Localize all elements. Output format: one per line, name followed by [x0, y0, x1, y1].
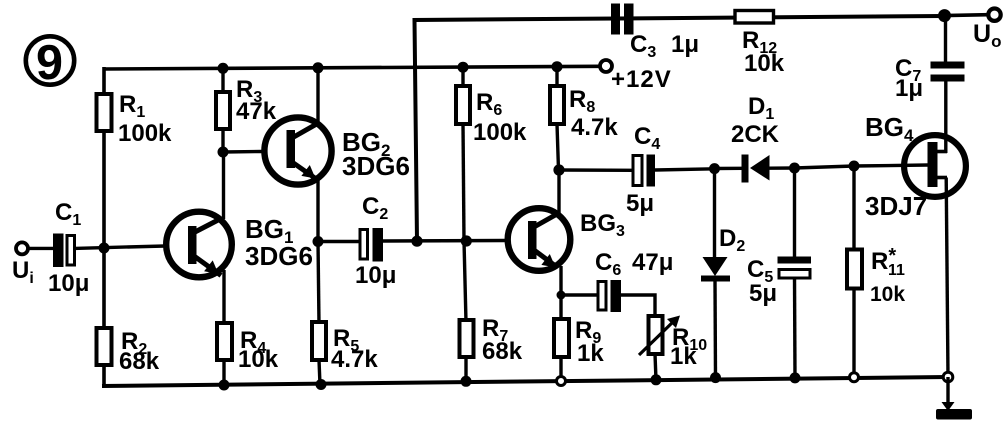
- svg-text:3DG6: 3DG6: [245, 241, 313, 271]
- wire bus to R3: [221, 68, 224, 94]
- node R10 ground junction: [651, 374, 662, 385]
- wire R6 to base line: [463, 124, 464, 241]
- capacitor C2 10u: [355, 193, 396, 289]
- capacitor C1 10u: [48, 199, 89, 297]
- wire node to BG4 gate: [854, 165, 928, 166]
- wire bus to R6: [461, 67, 464, 88]
- wire C2 to BG3 base: [383, 239, 505, 243]
- wire node to C2: [318, 240, 360, 243]
- transistor BG4 3DJ7 (FET): [865, 112, 966, 221]
- node R3 top on supply bus: [218, 63, 229, 74]
- svg-text:1k: 1k: [670, 343, 697, 370]
- wire R4 to ground bus: [222, 360, 225, 386]
- node C5 ground junction: [790, 372, 801, 383]
- wire C5 node to R11 node: [795, 166, 855, 168]
- wire C5 column: [793, 168, 796, 257]
- wire top feedback bus: [415, 16, 944, 241]
- wire R1 to R2: [102, 131, 106, 329]
- wire node to C7: [944, 16, 947, 63]
- output terminal Uo: [973, 9, 1001, 52]
- ground symbol: [936, 377, 972, 420]
- node R6 top on supply bus: [458, 62, 469, 73]
- wire R5 column: [318, 242, 319, 325]
- svg-text:47k: 47k: [236, 98, 277, 125]
- +12V supply terminal: [600, 60, 672, 93]
- wire BG1 emitter to R4: [222, 270, 225, 325]
- wire R3 to node A: [221, 129, 224, 152]
- wire R8 to collector node: [557, 124, 559, 170]
- svg-text:5μ: 5μ: [626, 190, 654, 217]
- wire node to C6: [561, 293, 598, 296]
- svg-text:C647μ: C647μ: [595, 249, 673, 279]
- capacitor C3 1u: [611, 4, 699, 62]
- wire BG2 emitter down to C2 node: [316, 180, 319, 242]
- node C1/R1/R2 junction: [99, 243, 110, 254]
- wire R1 column: [102, 67, 106, 96]
- wire +12V supply bus: [104, 66, 600, 69]
- svg-text:10k: 10k: [744, 50, 785, 77]
- node R8 top on supply bus: [552, 61, 563, 72]
- resistor R2 68k: [97, 328, 160, 375]
- svg-text:+12V: +12V: [611, 66, 672, 93]
- node R7 ground junction: [461, 376, 472, 387]
- node R6/R7 junction: [461, 235, 472, 246]
- svg-text:9: 9: [36, 36, 63, 90]
- resistor R1 100k: [97, 91, 173, 147]
- node ground bus / BG4 source junction (open): [943, 372, 953, 382]
- wire D2 column: [713, 169, 716, 257]
- node R9 ground junction (open): [557, 377, 566, 386]
- transistor BG2 3DG6: [264, 117, 410, 184]
- wire node A to BG1 collector: [222, 152, 225, 219]
- wire R5 to ground bus: [319, 360, 320, 385]
- wire C1 to BG1 base: [75, 246, 166, 248]
- svg-text:10μ: 10μ: [48, 270, 89, 297]
- resistor R6 100k: [456, 86, 527, 146]
- svg-text:1μ: 1μ: [895, 75, 923, 102]
- node output junction on top bus: [938, 9, 951, 22]
- wire BG4 source down to ground: [946, 178, 948, 378]
- wire R11 to ground bus: [852, 288, 855, 377]
- wire emitter BG3 down: [559, 266, 562, 295]
- figure number 9 badge: [26, 36, 74, 90]
- diode D2: [701, 225, 745, 282]
- wire R11 column: [852, 166, 855, 251]
- resistor R9 1k: [554, 317, 604, 367]
- node BG2 emitter / C2 / R5: [313, 236, 324, 247]
- svg-text:10k: 10k: [238, 346, 279, 373]
- resistor R7 68k: [460, 315, 523, 365]
- transistor BG1 3DG6: [166, 212, 313, 278]
- wire bus to R8: [555, 67, 558, 88]
- wire C4 to D2 node: [655, 169, 715, 170]
- svg-text:5μ: 5μ: [749, 280, 777, 307]
- svg-text:3DJ7: 3DJ7: [865, 191, 927, 221]
- wire D1 to C5 node: [769, 166, 795, 170]
- wire C5 to ground bus: [793, 277, 797, 379]
- wire BG3 collector up: [557, 170, 560, 214]
- svg-text:68k: 68k: [482, 338, 523, 365]
- node R11 / gate junction: [849, 161, 860, 172]
- capacitor C4 5u: [626, 123, 660, 217]
- capacitor C7 1u: [895, 55, 965, 102]
- svg-text:2CK: 2CK: [731, 121, 780, 148]
- capacitor C5 5u: [747, 256, 811, 307]
- node D2 ground junction: [710, 372, 721, 383]
- svg-text:1k: 1k: [577, 340, 604, 367]
- wire R9 to ground bus: [559, 357, 562, 381]
- node R4 ground junction: [219, 380, 230, 391]
- resistor R10 1k (variable): [639, 316, 707, 371]
- svg-text:4.7k: 4.7k: [331, 346, 378, 373]
- node feedback junction: [411, 236, 422, 247]
- node BG2 collector on supply bus: [313, 62, 324, 73]
- input terminal Ui: [12, 242, 34, 287]
- wire D2 to ground bus: [713, 281, 717, 378]
- node BG3 collector / R8 / C4: [553, 164, 564, 175]
- svg-text:3DG6: 3DG6: [342, 151, 410, 181]
- node C4 / D1 / D2 junction: [709, 163, 720, 174]
- svg-text:68k: 68k: [119, 348, 160, 375]
- wire C6 to R10: [621, 295, 655, 318]
- wire gate line: collector node to BG4: [559, 168, 635, 172]
- resistor R11* 10k: [847, 245, 905, 306]
- wire C7 to BG4 drain: [944, 82, 947, 154]
- svg-text:10μ: 10μ: [355, 262, 396, 289]
- wire to output terminal: [945, 13, 989, 18]
- wire R2 to ground bus: [102, 365, 106, 388]
- node R5 ground junction: [316, 379, 327, 390]
- resistor R12 10k: [735, 11, 785, 78]
- svg-text:4.7k: 4.7k: [571, 114, 618, 141]
- node R11 ground junction (open): [850, 373, 859, 382]
- node BG3 emitter / C6 / R9: [557, 291, 566, 300]
- resistor R5 4.7k: [312, 322, 378, 373]
- svg-text:10k: 10k: [870, 283, 905, 306]
- node D1 / C5 junction: [789, 163, 800, 174]
- wire input to C1: [28, 247, 54, 250]
- wire node down to R7: [464, 241, 466, 322]
- resistor R8 4.7k: [550, 86, 618, 141]
- resistor R3 47k: [216, 76, 277, 129]
- svg-text:100k: 100k: [473, 119, 527, 146]
- node A : R3 / BG1 collector / BG2 base: [218, 147, 229, 158]
- wire R10 to ground bus: [655, 354, 656, 380]
- wire bus to BG2 collector: [316, 68, 319, 122]
- svg-text:100k: 100k: [118, 120, 172, 147]
- capacitor C6 47u: [595, 249, 673, 312]
- resistor R4 10k: [217, 323, 279, 373]
- diode D1 2CK: [731, 93, 780, 183]
- transistor BG3: [508, 208, 625, 271]
- wire node A to BG2 base: [223, 150, 262, 154]
- wire bottom ground bus: [102, 377, 948, 386]
- wire R9 column: [559, 295, 562, 321]
- wire node to D1: [715, 167, 744, 171]
- wire R7 to ground bus: [464, 357, 467, 382]
